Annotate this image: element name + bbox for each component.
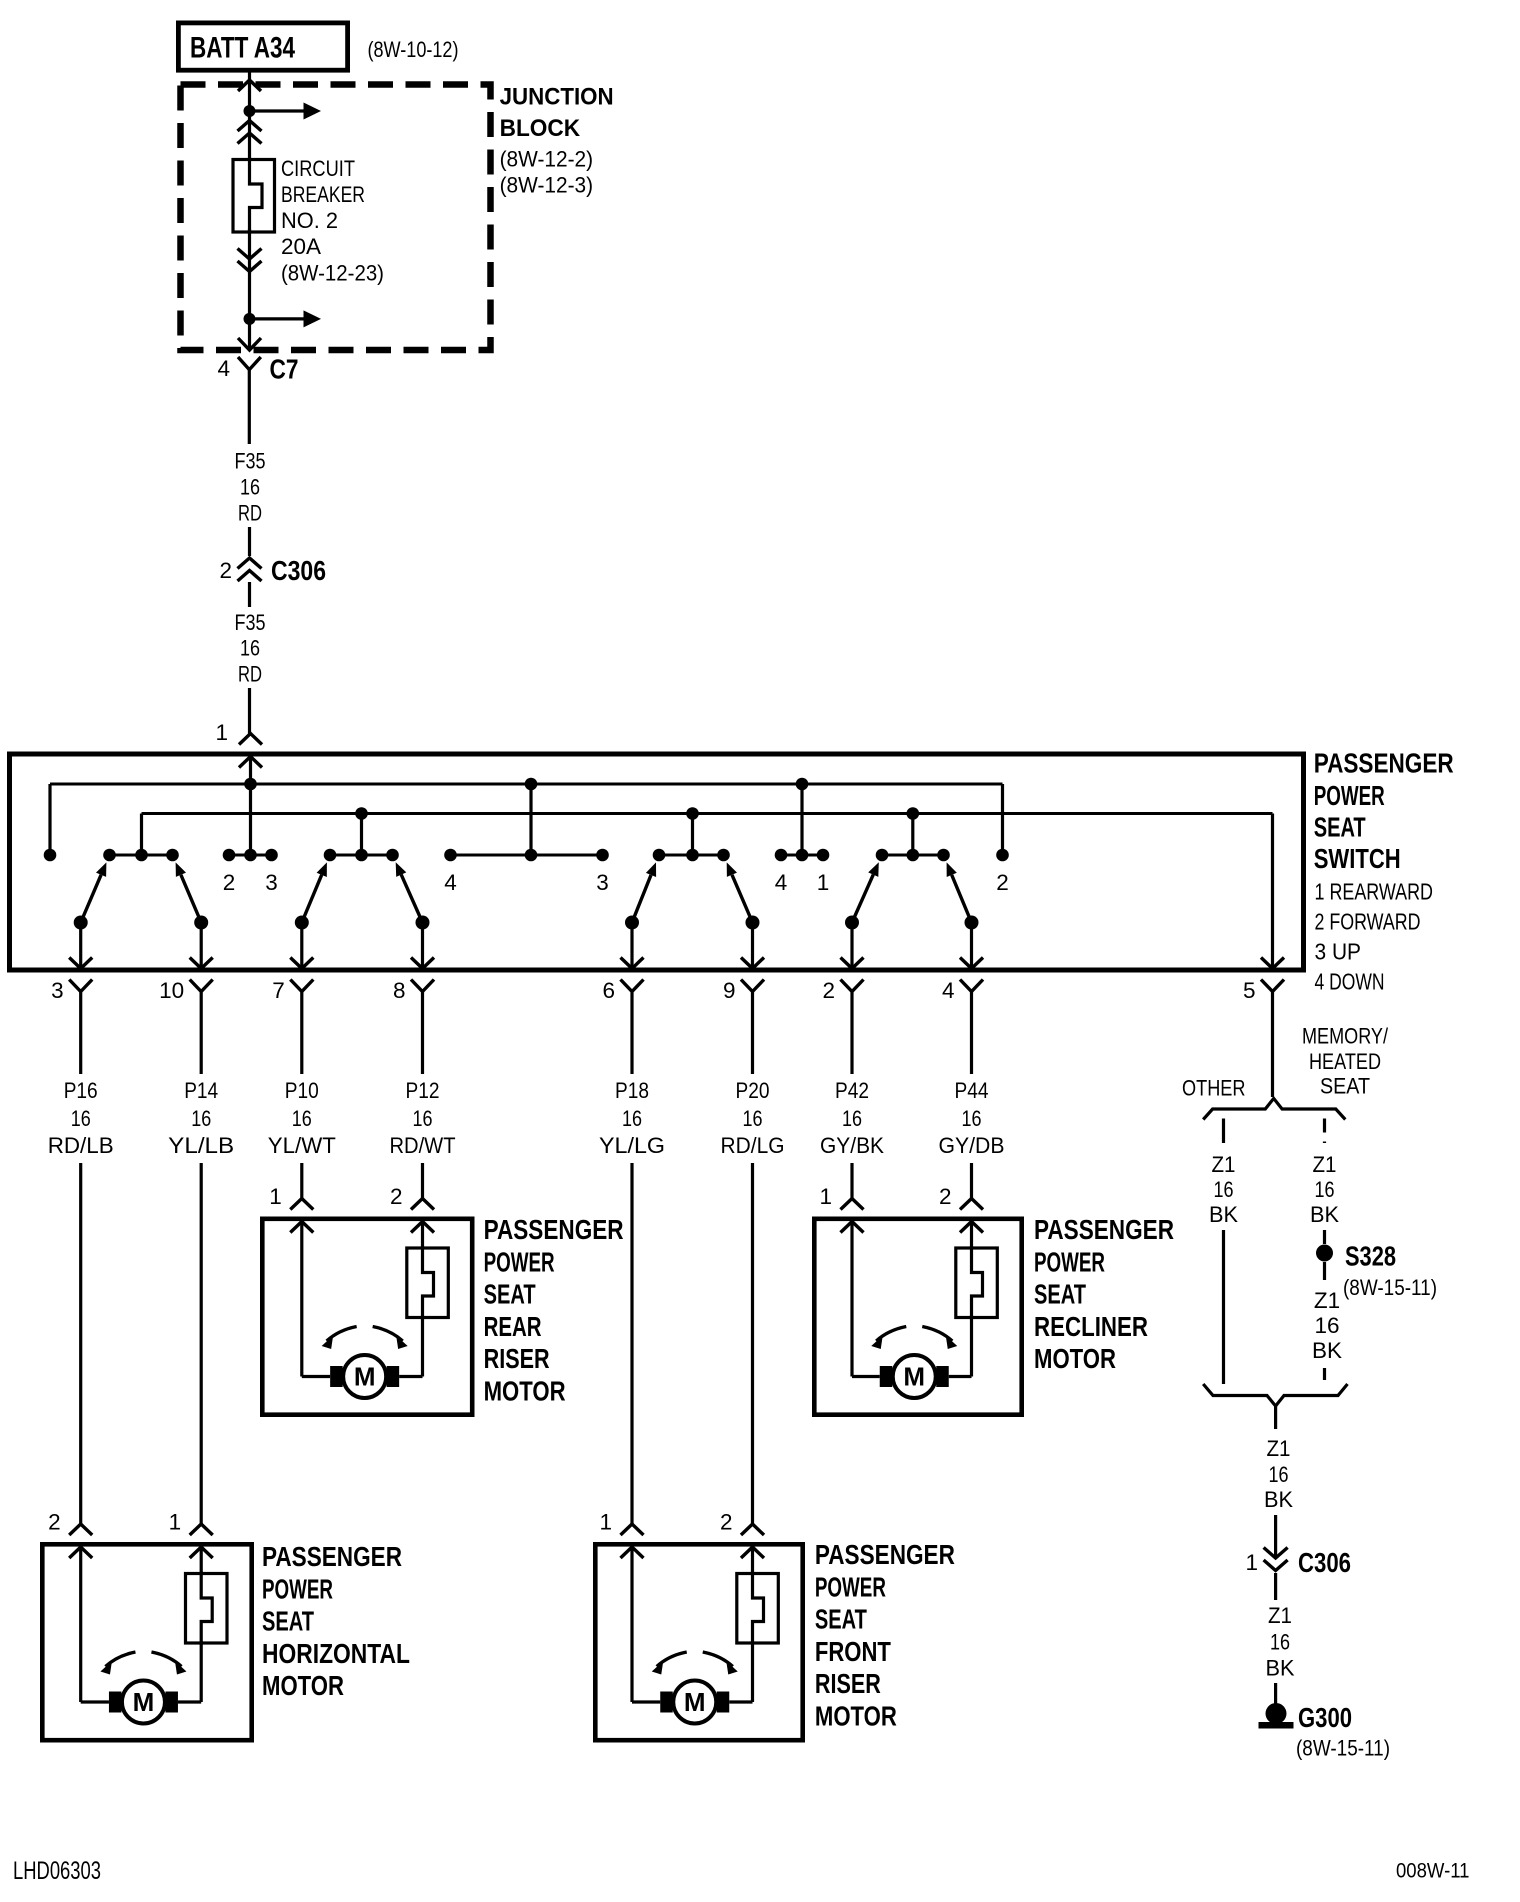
connector: switch pin 6: [621, 958, 644, 992]
svg-text:16: 16: [1270, 1630, 1290, 1655]
svg-text:(8W-15-11): (8W-15-11): [1296, 1736, 1390, 1761]
motor M of passenger power seat rear riser motor: [330, 1355, 399, 1398]
wire breaker to motor level: [421, 1316, 424, 1377]
svg-text:P12: P12: [406, 1078, 440, 1103]
svg-text:BLOCK: BLOCK: [500, 115, 581, 142]
svg-text:(8W-12-23): (8W-12-23): [281, 261, 384, 286]
motor M of passenger power seat front riser motor: [660, 1681, 729, 1724]
wire to switch pin 1: [248, 688, 251, 734]
wire to motor terminal right: [949, 1375, 972, 1378]
svg-text:RD/LG: RD/LG: [721, 1133, 785, 1158]
connector chevrons (below breaker): [238, 249, 262, 272]
svg-text:OTHER: OTHER: [1182, 1076, 1246, 1101]
svg-text:SEAT: SEAT: [262, 1606, 314, 1637]
connector: switch pin 5: [1261, 958, 1284, 992]
wire bus2 drop (recliner group): [911, 814, 914, 856]
merge brace (bottom): [1203, 1384, 1347, 1406]
connector: switch pin 10: [190, 958, 213, 992]
wire pin 6 down: [630, 992, 633, 1075]
switch wiper pin 10: [176, 862, 202, 922]
node bus1 feed: [244, 778, 257, 791]
wire breaker to lower junction: [248, 229, 251, 319]
wire pin 5 down to split: [1271, 992, 1274, 1098]
svg-text:(8W-12-2): (8W-12-2): [500, 147, 593, 172]
in-line connector C306 (pin 2): [238, 558, 262, 581]
wire OTHER branch (top): [1222, 1119, 1225, 1144]
svg-text:BK: BK: [1310, 1202, 1339, 1227]
svg-text:P18: P18: [615, 1078, 649, 1103]
wire pin 4 down: [970, 992, 973, 1075]
switch pivot (pin 4): [965, 916, 979, 930]
circuit breaker NO. 2 20A: [233, 158, 275, 235]
wire label Z1 16 BK (to ground): [1266, 1603, 1295, 1681]
wire label P16 16 RD/LB: [48, 1078, 114, 1158]
svg-text:3: 3: [51, 978, 64, 1003]
switch pivot (pin 2): [845, 916, 859, 930]
switch wiper pin 2: [852, 862, 879, 922]
connector: switch pin 8: [411, 958, 434, 992]
wire pin 8 down: [421, 992, 424, 1075]
svg-text:3: 3: [265, 870, 278, 895]
svg-text:S328: S328: [1345, 1241, 1396, 1272]
svg-text:SEAT: SEAT: [1034, 1279, 1086, 1310]
svg-text:YL/WT: YL/WT: [268, 1133, 336, 1158]
wire label P12 16 RD/WT: [390, 1078, 456, 1158]
svg-text:PASSENGER: PASSENGER: [815, 1539, 955, 1570]
wire label P44 16 GY/DB: [939, 1078, 1005, 1158]
svg-text:2: 2: [939, 1184, 952, 1209]
svg-text:7: 7: [272, 978, 285, 1003]
svg-text:2: 2: [48, 1510, 61, 1535]
svg-text:G300: G300: [1298, 1702, 1352, 1733]
wire below C306: [1274, 1573, 1277, 1600]
battery feed box BATT A34: [178, 23, 347, 70]
wire pin 9 down: [751, 992, 754, 1075]
svg-text:2: 2: [223, 870, 236, 895]
svg-text:6: 6: [602, 978, 615, 1003]
wire P42 run: [850, 1163, 853, 1199]
svg-text:2: 2: [996, 870, 1009, 895]
ground G300: [1266, 1703, 1287, 1724]
svg-text:POWER: POWER: [1314, 780, 1385, 811]
svg-text:16: 16: [1315, 1177, 1335, 1202]
wire pin 2 down: [850, 992, 853, 1075]
wire bus1 right end drop: [1001, 784, 1004, 855]
motor M of passenger power seat recliner motor: [880, 1355, 949, 1398]
wire feed drop to contacts: [249, 784, 252, 855]
svg-text:POWER: POWER: [484, 1246, 555, 1277]
switch pivot (pin 10): [194, 916, 208, 930]
wire pivot to pin 9: [751, 923, 754, 967]
connector: switch pin 2: [841, 958, 864, 992]
svg-text:M: M: [903, 1362, 925, 1392]
wire label P10 16 YL/WT: [268, 1078, 336, 1158]
svg-text:16: 16: [1269, 1462, 1289, 1487]
connector: switch pin 3: [69, 958, 92, 992]
svg-text:(8W-12-3): (8W-12-3): [500, 173, 593, 198]
contact group A (horizontal motor): [110, 854, 173, 857]
wire breaker to motor level: [751, 1641, 754, 1702]
svg-text:16: 16: [240, 475, 260, 500]
svg-text:RISER: RISER: [484, 1343, 550, 1374]
switch wiper pin 6: [632, 862, 656, 922]
wire right pin into breaker: [970, 1222, 973, 1250]
connector: switch pin 9: [741, 958, 764, 992]
svg-text:BREAKER: BREAKER: [281, 182, 365, 207]
wire to C306: [248, 527, 251, 556]
wire label F35 16 RD (upper): [235, 449, 266, 526]
passenger power seat horizontal motor: [42, 1544, 251, 1740]
svg-text:2: 2: [720, 1510, 733, 1535]
svg-text:1: 1: [817, 870, 830, 895]
svg-text:RD: RD: [238, 662, 262, 687]
svg-text:16: 16: [240, 636, 260, 661]
svg-text:16: 16: [413, 1106, 433, 1131]
svg-text:RD: RD: [238, 501, 262, 526]
switch wiper pin 4: [947, 862, 972, 922]
svg-text:5: 5: [1243, 978, 1256, 1003]
wire to C306 pin 1: [1274, 1515, 1277, 1556]
svg-text:BATT A34: BATT A34: [190, 32, 295, 65]
in-line connector C306 (pin 1): [1264, 1548, 1288, 1571]
svg-text:2: 2: [390, 1184, 403, 1209]
wire BATT A34 to junction: [248, 72, 251, 111]
svg-text:GY/BK: GY/BK: [820, 1133, 884, 1158]
svg-text:PASSENGER: PASSENGER: [1034, 1214, 1174, 1245]
svg-text:2 FORWARD: 2 FORWARD: [1315, 909, 1421, 935]
node bus2 / front riser drop: [686, 807, 699, 820]
svg-text:LHD06303: LHD06303: [13, 1857, 101, 1885]
svg-text:YL/LB: YL/LB: [168, 1133, 234, 1158]
wire label Z1 16 BK (memory branch): [1310, 1152, 1339, 1227]
wire to motor terminal left: [852, 1375, 880, 1378]
wire bus2 left end drop: [140, 814, 143, 856]
svg-text:M: M: [684, 1687, 706, 1717]
svg-text:P42: P42: [835, 1078, 869, 1103]
svg-text:YL/LG: YL/LG: [599, 1133, 665, 1158]
svg-text:PASSENGER: PASSENGER: [262, 1541, 402, 1572]
svg-text:16: 16: [71, 1106, 91, 1131]
rotation arrows: [871, 1327, 957, 1350]
wire pivot to pin 8: [421, 923, 424, 967]
svg-text:C306: C306: [1298, 1547, 1351, 1578]
node bus2 / recliner drop: [907, 807, 920, 820]
switch pivot (pin 6): [625, 916, 639, 930]
svg-text:16: 16: [1214, 1177, 1234, 1202]
node: junction dot with feed arrow (bottom): [244, 310, 322, 327]
wire pivot to pin 7: [300, 923, 303, 967]
svg-text:SEAT: SEAT: [1320, 1074, 1370, 1099]
svg-text:1: 1: [269, 1184, 282, 1209]
svg-text:F35: F35: [235, 449, 266, 474]
wire label F35 16 RD (lower): [235, 610, 266, 687]
svg-text:4 DOWN: 4 DOWN: [1315, 969, 1385, 995]
svg-text:P20: P20: [736, 1078, 770, 1103]
wire to C7: [248, 319, 251, 349]
svg-text:Z1: Z1: [1314, 1288, 1340, 1313]
svg-text:4: 4: [444, 870, 457, 895]
wire P14 run: [200, 1163, 203, 1524]
connector: pin 2 into passenger power seat recliner motor: [960, 1199, 983, 1233]
wire bus2 drop (horizontal group): [360, 814, 363, 856]
svg-text:C306: C306: [271, 555, 326, 586]
switch wiper pin 7: [302, 862, 327, 922]
wire label P20 16 RD/LG: [721, 1078, 785, 1158]
svg-text:3 UP: 3 UP: [1315, 939, 1362, 965]
node bus1 / riser drop: [525, 778, 538, 791]
connector: feed entering switch (pin 1): [239, 734, 262, 768]
thermal breaker in passenger power seat front riser motor: [737, 1572, 779, 1646]
svg-text:1: 1: [169, 1510, 182, 1535]
svg-text:POWER: POWER: [1034, 1246, 1105, 1277]
contact group B (rear riser): [330, 854, 393, 857]
switch pivot (pin 8): [416, 916, 430, 930]
wire left pin to motor: [79, 1547, 82, 1702]
rotation arrows: [652, 1652, 738, 1675]
connector: pin 2 into passenger power seat rear riser motor: [411, 1199, 434, 1233]
contact group E (4/1): [781, 854, 823, 857]
wire pin 3 down: [79, 992, 82, 1075]
wire to circuit breaker: [248, 111, 251, 158]
switch contact: lone right (2): [996, 849, 1009, 862]
wire to motor terminal left: [632, 1700, 660, 1703]
svg-text:C7: C7: [270, 354, 299, 385]
splice S328: [1316, 1245, 1333, 1262]
wire to motor terminal right: [729, 1700, 752, 1703]
svg-text:P16: P16: [64, 1078, 98, 1103]
svg-text:RECLINER: RECLINER: [1034, 1311, 1148, 1342]
switch pivot (pin 3): [74, 916, 88, 930]
svg-text:008W-11: 008W-11: [1396, 1859, 1470, 1883]
switch pivot (pin 9): [746, 916, 760, 930]
connector: switch pin 7: [290, 958, 313, 992]
wire pivot to pin 3: [79, 923, 82, 967]
wire label P42 16 GY/BK: [820, 1078, 884, 1158]
wire right pin into breaker: [421, 1222, 424, 1250]
wire pin 10 down: [200, 992, 203, 1075]
svg-text:SEAT: SEAT: [484, 1279, 536, 1310]
wire below splice: [1323, 1262, 1326, 1280]
wire below C306: [248, 582, 251, 607]
svg-text:9: 9: [723, 978, 736, 1003]
contact group D (front riser): [659, 854, 724, 857]
switch wiper pin 8: [396, 862, 423, 922]
wire breaker to motor level: [970, 1316, 973, 1377]
passenger power seat switch box: [10, 754, 1304, 970]
svg-text:SWITCH: SWITCH: [1314, 843, 1401, 874]
wire pivot to pin 4: [970, 923, 973, 967]
svg-text:SEAT: SEAT: [815, 1604, 867, 1635]
svg-text:RISER: RISER: [815, 1668, 881, 1699]
svg-text:M: M: [133, 1687, 155, 1717]
svg-text:JUNCTION: JUNCTION: [500, 84, 614, 111]
wire left pin to motor: [850, 1222, 853, 1377]
svg-text:1: 1: [819, 1184, 832, 1209]
connector: switch pin 4: [960, 958, 983, 992]
svg-text:1: 1: [1245, 1550, 1258, 1575]
wire OTHER branch (down): [1222, 1230, 1225, 1384]
svg-text:2: 2: [219, 558, 232, 583]
svg-text:16: 16: [622, 1106, 642, 1131]
wire to ground G300: [1274, 1683, 1277, 1708]
wire MEMORY branch (top, dashed): [1323, 1119, 1326, 1144]
svg-text:HORIZONTAL: HORIZONTAL: [262, 1638, 410, 1669]
svg-text:PASSENGER: PASSENGER: [484, 1214, 624, 1245]
thermal breaker in passenger power seat horizontal motor: [186, 1572, 228, 1646]
contact group C wide (4/3): [451, 854, 603, 857]
node bus1 / recliner drop: [796, 778, 809, 791]
svg-text:16: 16: [292, 1106, 312, 1131]
svg-text:3: 3: [596, 870, 609, 895]
svg-text:16: 16: [743, 1106, 763, 1131]
connector: pin 1 into passenger power seat horizontal motor: [190, 1524, 213, 1558]
thermal breaker in passenger power seat recliner motor: [956, 1246, 998, 1320]
svg-text:Z1: Z1: [1313, 1152, 1337, 1177]
svg-text:F35: F35: [235, 610, 266, 635]
wire P12 run: [421, 1163, 424, 1199]
switch wiper pin 9: [727, 862, 753, 922]
wire P16 run: [79, 1163, 82, 1524]
wire bus1 drop to recliner contacts: [800, 784, 803, 855]
wire left pin to motor: [630, 1547, 633, 1702]
svg-text:MOTOR: MOTOR: [262, 1670, 344, 1701]
svg-text:MOTOR: MOTOR: [815, 1701, 897, 1732]
wire bus2 right end to pin 5: [1271, 814, 1274, 967]
switch pivot (pin 7): [295, 916, 309, 930]
svg-text:SEAT: SEAT: [1314, 811, 1366, 842]
wire P18 run: [630, 1163, 633, 1524]
wire label P14 16 YL/LB: [168, 1078, 234, 1158]
contact group F (recliner): [882, 854, 944, 857]
passenger power seat rear riser motor: [262, 1219, 472, 1415]
connector: pin 2 into passenger power seat horizontal motor: [69, 1524, 92, 1558]
svg-text:MOTOR: MOTOR: [484, 1376, 566, 1407]
junction block (dashed): [181, 85, 491, 351]
svg-text:4: 4: [942, 978, 955, 1003]
svg-text:POWER: POWER: [815, 1571, 886, 1602]
wire bus2 drop (front riser group): [691, 814, 694, 856]
rotation arrows: [322, 1327, 408, 1350]
wire P20 run: [751, 1163, 754, 1524]
wire right pin into breaker: [751, 1547, 754, 1575]
wire pivot to pin 6: [630, 923, 633, 967]
contact group feed (2/3): [229, 854, 272, 857]
svg-text:8: 8: [393, 978, 406, 1003]
svg-text:1 REARWARD: 1 REARWARD: [1315, 879, 1434, 905]
svg-text:HEATED: HEATED: [1309, 1049, 1381, 1074]
svg-text:P14: P14: [184, 1078, 218, 1103]
bus 1 (battery feed rail): [50, 783, 1003, 786]
svg-text:4: 4: [217, 356, 230, 381]
svg-text:RD/WT: RD/WT: [390, 1133, 456, 1158]
svg-text:BK: BK: [1266, 1656, 1295, 1681]
connector: pin 1 into passenger power seat front riser motor: [621, 1524, 644, 1558]
node bus2 / rear riser drop: [355, 807, 368, 820]
svg-text:1: 1: [215, 720, 228, 745]
split brace (top): [1203, 1098, 1345, 1119]
wire right pin into breaker: [200, 1547, 203, 1575]
wire P44 run: [970, 1163, 973, 1199]
wire breaker to motor level: [200, 1641, 203, 1702]
svg-text:Z1: Z1: [1212, 1152, 1236, 1177]
svg-text:Z1: Z1: [1268, 1603, 1292, 1628]
svg-text:MEMORY/: MEMORY/: [1302, 1024, 1389, 1049]
connector C7 pin 4: [238, 338, 261, 350]
svg-text:GY/DB: GY/DB: [939, 1133, 1005, 1158]
bus 2 (battery feed rail 2): [142, 812, 1273, 815]
svg-text:Z1: Z1: [1267, 1436, 1291, 1461]
wire bus1 left end drop: [48, 784, 51, 855]
connector: pin 1 into passenger power seat rear riser motor: [290, 1199, 313, 1233]
wire to motor terminal left: [302, 1375, 330, 1378]
svg-text:1: 1: [599, 1510, 612, 1535]
thermal breaker in passenger power seat rear riser motor: [407, 1246, 449, 1320]
svg-text:REAR: REAR: [484, 1311, 542, 1342]
wire pin 7 down: [300, 992, 303, 1075]
wire pivot to pin 10: [200, 923, 203, 967]
connector: pin 1 into passenger power seat recliner motor: [841, 1199, 864, 1233]
wire label Z1 16 BK (other branch): [1209, 1152, 1238, 1227]
arrow into BATT A34: [238, 80, 261, 91]
svg-text:NO. 2: NO. 2: [281, 208, 338, 233]
wire to motor terminal right: [399, 1375, 422, 1378]
passenger power seat front riser motor: [595, 1544, 802, 1740]
svg-text:POWER: POWER: [262, 1573, 333, 1604]
svg-text:FRONT: FRONT: [815, 1636, 891, 1667]
wire switch feed inside: [249, 757, 252, 784]
svg-text:16: 16: [1314, 1313, 1339, 1338]
svg-text:CIRCUIT: CIRCUIT: [281, 156, 355, 181]
svg-text:M: M: [354, 1362, 376, 1392]
wire F35 upper: [248, 370, 251, 444]
node: junction dot with feed arrow (top): [244, 103, 322, 120]
wire memory branch (bottom, dashed): [1323, 1368, 1326, 1384]
wire to motor terminal right: [178, 1700, 201, 1703]
svg-text:4: 4: [775, 870, 788, 895]
svg-text:16: 16: [842, 1106, 862, 1131]
svg-text:(8W-10-12): (8W-10-12): [368, 37, 459, 62]
connector chevrons (junction block top): [238, 121, 262, 144]
svg-text:BK: BK: [1264, 1487, 1293, 1512]
connector: pin 2 into passenger power seat front riser motor: [741, 1524, 764, 1558]
wire to motor terminal left: [81, 1700, 109, 1703]
svg-text:10: 10: [159, 978, 184, 1003]
wire pivot to pin 2: [850, 923, 853, 967]
rotation arrows: [100, 1652, 186, 1675]
wire label P18 16 YL/LG: [599, 1078, 665, 1158]
svg-text:16: 16: [191, 1106, 211, 1131]
svg-text:BK: BK: [1312, 1338, 1342, 1363]
svg-text:MOTOR: MOTOR: [1034, 1343, 1116, 1374]
switch contact: lone left: [44, 849, 57, 862]
svg-text:PASSENGER: PASSENGER: [1314, 747, 1454, 778]
wire memory branch to splice: [1323, 1230, 1326, 1244]
motor M of passenger power seat horizontal motor: [109, 1681, 178, 1724]
svg-text:BK: BK: [1209, 1202, 1238, 1227]
svg-text:P10: P10: [285, 1078, 319, 1103]
svg-text:16: 16: [962, 1106, 982, 1131]
svg-text:RD/LB: RD/LB: [48, 1133, 114, 1158]
passenger power seat recliner motor: [814, 1219, 1021, 1415]
wire bus1 drop to wide contacts: [529, 784, 532, 855]
svg-text:(8W-15-11): (8W-15-11): [1343, 1275, 1437, 1300]
wire label Z1 16 BK (merged): [1264, 1436, 1293, 1512]
svg-text:20A: 20A: [281, 234, 321, 259]
svg-text:P44: P44: [955, 1078, 989, 1103]
wire merged Z1: [1274, 1406, 1277, 1429]
switch wiper pin 3: [81, 862, 107, 922]
svg-text:2: 2: [822, 978, 835, 1003]
